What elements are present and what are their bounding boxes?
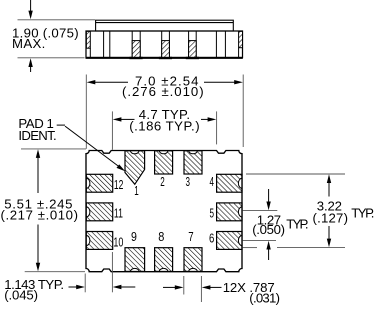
1.143 ext line right: [111, 252, 113, 292]
castellation notch pad 5: [238, 207, 242, 217]
castellation notch pad 8: [159, 268, 168, 271]
5.51 ext line top: [21, 148, 86, 150]
svg-text:12: 12: [114, 178, 124, 192]
castellation notch pad 3: [189, 151, 198, 154]
castellation notch pad 12: [86, 178, 90, 188]
pad 2: [155, 151, 173, 174]
svg-text:11: 11: [114, 206, 123, 220]
12X arrow right-pointing: [163, 285, 184, 289]
groove pad 7: [186, 31, 199, 58]
7.0 ext line right: [242, 75, 244, 148]
castellation notch pad 4: [238, 178, 242, 188]
svg-text:IDENT.: IDENT.: [18, 128, 56, 143]
castellation notch pad 9: [131, 268, 140, 271]
5.51 ext line bottom: [25, 271, 85, 273]
pad 6: [217, 232, 242, 250]
12X arrow left-pointing: [202, 285, 222, 289]
svg-text:(.050): (.050): [252, 222, 285, 237]
svg-text:(.045): (.045): [4, 288, 38, 303]
svg-text:7: 7: [188, 230, 193, 244]
7.0 ext line left: [85, 75, 87, 149]
3.22 down arrow: [327, 226, 331, 247]
pad 3: [184, 151, 202, 174]
pad 12: [86, 174, 112, 192]
body bottom thick: [86, 57, 243, 59]
svg-text:(.276 ±.010): (.276 ±.010): [122, 84, 204, 99]
4.7 ext line left: [111, 111, 113, 149]
leader line: [57, 125, 126, 171]
3.22 ext line top: [246, 173, 345, 175]
12X ext line left: [183, 276, 185, 295]
svg-text:(.127): (.127): [313, 210, 349, 225]
3.22 ext line bottom: [243, 247, 346, 249]
svg-text:(.031): (.031): [249, 290, 280, 305]
1.143 arrow right-pointing: [69, 285, 85, 289]
castellation notch pad 11: [86, 207, 90, 217]
7.0 dim line right w/ arrow: [204, 80, 243, 84]
svg-text:3: 3: [186, 175, 191, 189]
pad 8: [155, 248, 173, 272]
4.7 ext line right: [216, 111, 218, 144]
1.143 arrow left-pointing: [113, 285, 136, 289]
castellation notch pad 10: [86, 236, 90, 246]
groove left corner hatched: [86, 31, 90, 57]
5.51 dim line bottom w/ down arrow: [36, 225, 40, 272]
1.143 ext line left: [84, 274, 86, 293]
svg-text:9: 9: [131, 230, 137, 244]
4.7 dim line left w/ arrow: [113, 117, 135, 121]
svg-text:MAX.: MAX.: [12, 36, 45, 51]
1.27 up arrow: [266, 241, 270, 260]
4.7 dim line right w/ arrow: [201, 117, 216, 121]
1.90 ext line top: [18, 19, 96, 21]
svg-text:10: 10: [113, 235, 123, 249]
5.51 dim line top w/ up arrow: [36, 149, 40, 193]
svg-text:(.186 TYP.): (.186 TYP.): [129, 118, 199, 133]
1.90 ext line bottom: [18, 57, 85, 59]
svg-text:(.217 ±.010): (.217 ±.010): [1, 207, 79, 222]
body: [86, 31, 243, 58]
groove empty right: [216, 31, 225, 58]
groove pad 9: [129, 31, 142, 58]
pad 11: [86, 203, 112, 221]
pad 9: [125, 248, 145, 272]
svg-text:2: 2: [160, 175, 165, 189]
groove empty left: [104, 31, 110, 58]
1.27 ext line top: [243, 210, 278, 212]
1.27 ext line bottom: [243, 239, 277, 241]
3.22 up arrow: [327, 174, 331, 196]
svg-text:8: 8: [158, 230, 164, 244]
1.90 up arrow: [28, 58, 32, 72]
1.27 down arrow: [266, 189, 270, 210]
svg-text:TYP.: TYP.: [351, 205, 374, 220]
package outline with corner notches and edge dips: [86, 151, 242, 272]
groove right corner hatched: [239, 31, 243, 57]
pad 4: [217, 174, 242, 192]
svg-text:1: 1: [134, 184, 139, 198]
pad 1 (pentagon, pin 1 ident): [125, 151, 145, 185]
12X ext line right: [200, 276, 202, 302]
svg-text:TYP.: TYP.: [286, 217, 308, 232]
castellation notch pad 6: [238, 236, 242, 246]
castellation notch pad 2: [159, 151, 168, 154]
pad 10: [86, 232, 112, 250]
castellation notch pad 7: [189, 268, 198, 271]
svg-text:6: 6: [209, 232, 214, 246]
castellation notch pad 1: [130, 151, 139, 154]
svg-text:4: 4: [210, 175, 215, 189]
1.90 down arrow: [28, 0, 32, 19]
pad 5: [217, 203, 242, 221]
groove pad 8: [159, 31, 172, 58]
svg-text:5: 5: [210, 206, 215, 220]
pad 7: [184, 248, 202, 272]
7.0 dim line left w/ arrow: [87, 80, 128, 84]
lid: [96, 20, 234, 31]
